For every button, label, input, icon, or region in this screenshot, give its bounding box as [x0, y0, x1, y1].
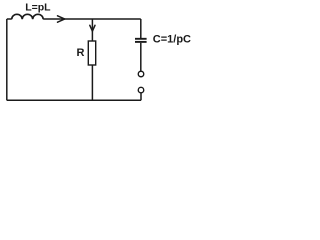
capacitor C top plate: [135, 38, 147, 40]
terminal lower (open circle): [138, 87, 144, 93]
wire: stub from lower terminal to bottom wire: [140, 93, 142, 100]
svg-text:C=1/pC: C=1/pC: [153, 33, 191, 45]
current arrow on top wire: [58, 16, 65, 22]
wire: R branch lower segment: [91, 65, 93, 100]
wire: bottom horizontal: [7, 99, 141, 101]
capacitor C bottom plate: [135, 41, 147, 43]
wire: R branch upper segment: [91, 19, 93, 41]
current arrow on R branch: [90, 25, 95, 31]
inductor L (3 humps): [12, 14, 44, 19]
svg-text:L=pL: L=pL: [25, 2, 51, 14]
wire: capacitor lower lead to terminal: [140, 43, 142, 71]
wire: left vertical side: [6, 19, 8, 100]
wire: capacitor branch upper lead: [140, 19, 142, 38]
terminal upper (open circle): [138, 71, 144, 77]
svg-text:R: R: [77, 47, 85, 59]
wire: top-left stub into inductor: [7, 18, 12, 20]
resistor R (box): [88, 41, 95, 65]
wire: top horizontal from inductor to capacitor corner: [43, 18, 141, 20]
